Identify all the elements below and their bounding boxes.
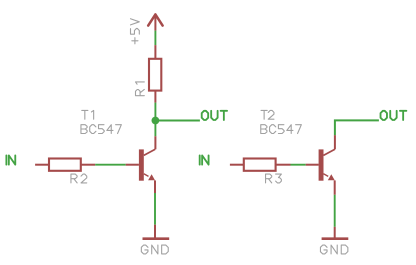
label IN (left): [6, 155, 15, 164]
label OUT (left): [202, 111, 227, 120]
wire emitter to GND: [334, 180, 336, 194]
ground (right): [334, 227, 336, 238]
resistor R1: [154, 45, 156, 59]
ground (left): [154, 225, 156, 238]
T2 name/value labels: [261, 110, 274, 119]
wire node to OUT: [155, 120, 200, 122]
wire collector up and to OUT: [334, 135, 336, 149]
wire node to collector: [154, 121, 156, 137]
T1 name/value labels: [82, 110, 94, 119]
resistor R2: [35, 164, 49, 166]
wire R3 to base: [291, 164, 306, 166]
wire R2 to base: [95, 164, 126, 166]
wire +5V to R1: [154, 31, 156, 45]
wire R1 to node: [154, 103, 156, 121]
resistor R3: [230, 164, 244, 166]
node junction: [152, 117, 160, 125]
label OUT (right): [381, 111, 407, 120]
transistor T1: [126, 164, 139, 166]
transistor T2: [306, 164, 319, 166]
wire emitter to GND: [154, 180, 156, 193]
label IN (right): [200, 155, 209, 164]
+5V label: [131, 19, 140, 44]
supply +5V symbol: [148, 14, 162, 25]
